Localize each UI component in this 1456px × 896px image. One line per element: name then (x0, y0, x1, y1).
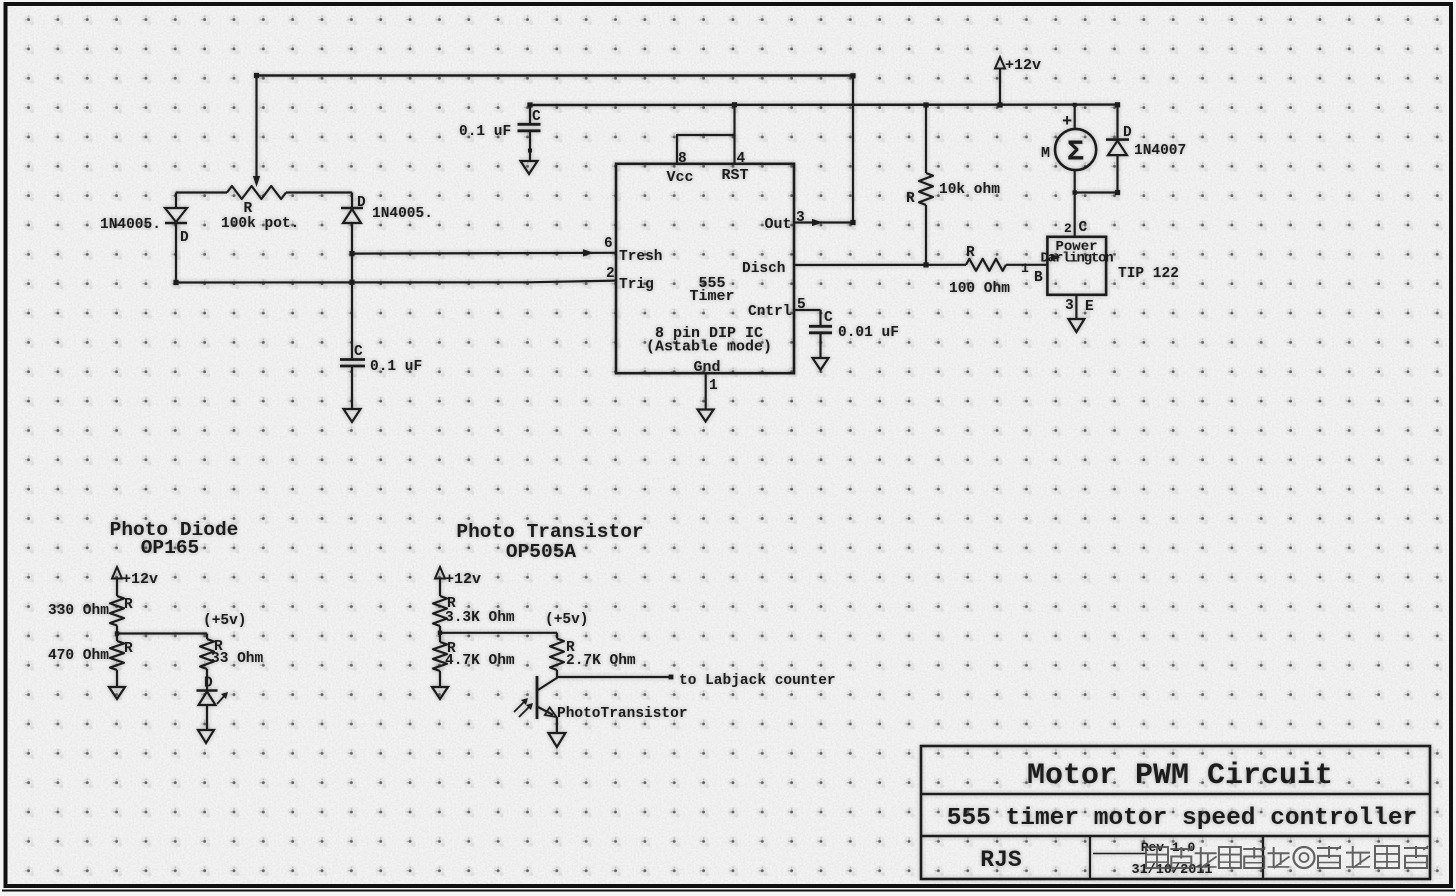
watermark juejin community (1146, 846, 1428, 868)
